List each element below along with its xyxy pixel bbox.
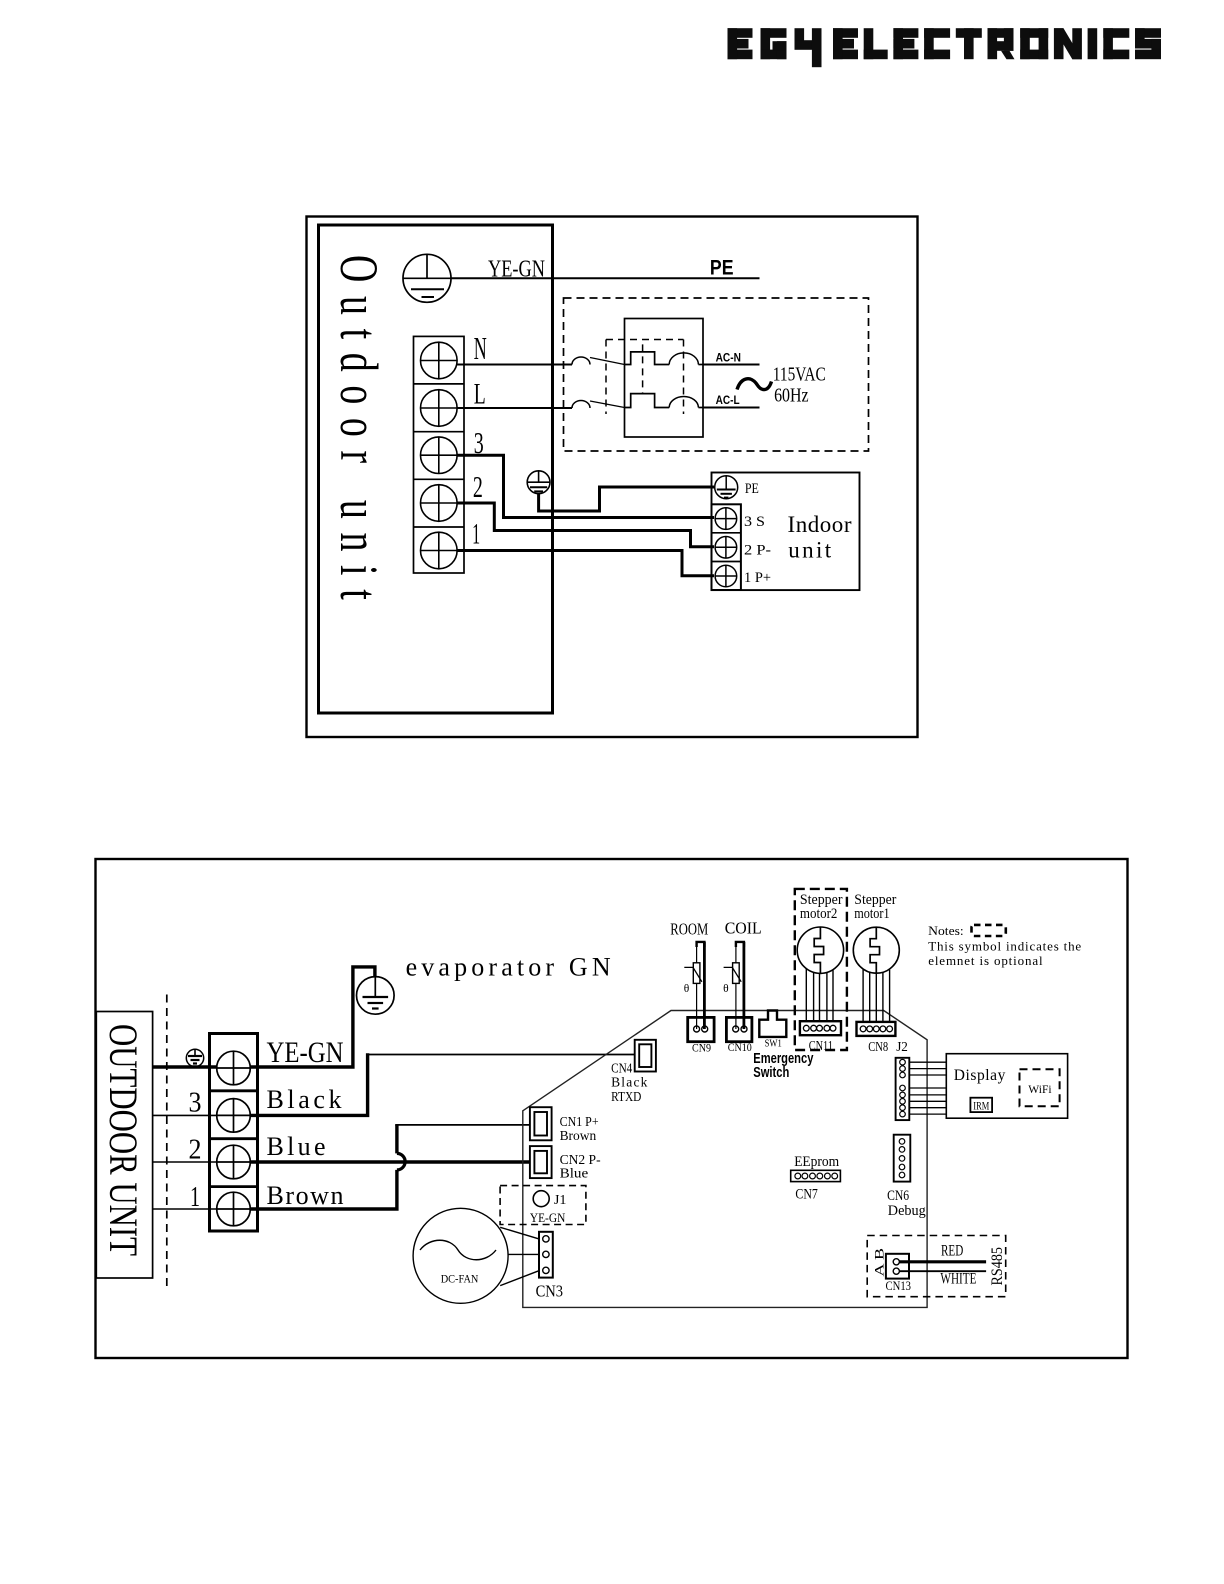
J1 pad [533,1191,549,1207]
indoor PE ground symbol [715,476,738,499]
svg-text:PE: PE [745,481,759,497]
svg-text:elemnet is optional: elemnet is optional [928,953,1043,968]
fan wires [500,1227,539,1285]
label CN13 [886,1279,912,1293]
terminal 3 [421,437,458,474]
label SW1 [765,1038,782,1050]
Display box [946,1054,1067,1119]
label YE-GN (wire) [267,1036,344,1069]
label Blue [267,1132,326,1161]
svg-text:CN9: CN9 [692,1042,711,1054]
svg-text:IRM: IRM [973,1099,989,1113]
stub wire 3 [153,1114,217,1116]
RS485 dashed box [867,1236,1006,1297]
label CN8 [868,1039,888,1054]
svg-text:Black: Black [611,1075,648,1090]
indoor terminal 2 P- [715,537,737,559]
label 115VAC [773,363,826,385]
svg-text:CN3: CN3 [536,1282,564,1301]
breaker box [625,319,704,438]
WiFi dashed box [1020,1069,1060,1106]
wire N to breaker [457,357,624,364]
svg-text:Notes:: Notes: [928,923,964,938]
label J2 [896,1039,908,1054]
breaker inner dashed box [606,340,684,415]
svg-text:COIL: COIL [725,919,762,938]
label CN2 P- [560,1153,601,1168]
svg-text:Switch: Switch [753,1065,789,1081]
svg-text:Debug: Debug [888,1203,926,1219]
svg-text:60Hz: 60Hz [774,385,809,407]
ground symbol YE-GN (outdoor) [403,254,451,302]
J1 dashed box [500,1186,586,1225]
OUTDOOR UNIT box [96,1012,152,1279]
connector CN13 [886,1254,909,1279]
svg-text:J2: J2 [896,1039,908,1054]
svg-text:A B: A B [873,1248,887,1277]
notes text [928,939,1081,969]
label 3 [474,425,484,460]
label 60Hz [774,385,809,407]
svg-text:3: 3 [189,1086,202,1118]
terminal 2 [421,485,458,522]
label 3 S [744,514,765,530]
svg-text:Blue: Blue [560,1167,589,1182]
connector CN6 [894,1135,911,1182]
connector CN8 [857,1022,896,1036]
label Black [267,1085,342,1114]
label AC-N [716,353,741,365]
label ROOM [670,919,708,938]
label Emergency Switch [753,1051,813,1081]
svg-text:CN11: CN11 [809,1038,833,1053]
wire Black to CN4 [250,1053,634,1115]
label 2 [473,469,483,504]
label YE-GN [488,257,545,283]
label evaporator GN [406,953,611,982]
label 2 (bottom) [189,1133,202,1165]
label 2 P- [744,543,771,559]
svg-text:YE-GN: YE-GN [530,1211,565,1225]
DC-FAN motor [413,1208,508,1303]
label CN6 Debug [887,1188,926,1219]
connector J2 [896,1058,910,1120]
svg-text:RED: RED [941,1243,963,1260]
evaporator ground symbol [357,977,395,1015]
label EEprom [794,1154,839,1170]
svg-text:DC-FAN: DC-FAN [441,1273,479,1285]
svg-text:motor1: motor1 [854,906,889,922]
svg-text:CN10: CN10 [728,1042,752,1054]
svg-text:1 P+: 1 P+ [744,570,771,586]
svg-text:Indoor: Indoor [788,512,852,537]
svg-text:Display: Display [954,1067,1006,1084]
terminal N [421,342,458,379]
small ground marker [186,1049,203,1066]
connector CN1 [530,1107,552,1140]
label A B [873,1248,887,1277]
label CN10 [728,1042,752,1054]
label CN3 [536,1282,564,1301]
connector CN4 [635,1040,656,1072]
stepper motor2 [797,927,843,973]
label J1 [554,1193,567,1208]
label WiFi [1028,1082,1052,1096]
wire 2 to indoor P- [457,503,714,547]
svg-text:EEprom: EEprom [794,1154,839,1170]
svg-text:CN4: CN4 [611,1060,632,1075]
label 1 (bottom) [190,1181,200,1213]
svg-text:θ: θ [723,983,729,995]
indoor terminal 1 P+ [715,565,737,587]
label CN1 P+ [560,1115,599,1130]
label Indoor unit [788,512,852,563]
COIL sensor thermistor [723,942,744,1029]
label PE [710,256,734,279]
svg-text:RS485: RS485 [989,1247,1006,1286]
wire 1 to indoor P+ [457,551,714,576]
svg-text:unit: unit [788,538,832,563]
dashed boundary line [166,995,168,1292]
stub wire 1 [153,1208,217,1210]
label PE (indoor) [745,481,759,497]
motor1 wires [863,970,890,1022]
wire Blue to CN2 [250,1160,530,1163]
svg-text:YE-GN: YE-GN [488,257,545,283]
label Display [954,1067,1006,1084]
label L [474,377,486,410]
outdoor unit box [319,225,553,713]
terminal 1 [421,532,458,569]
label CN9 [692,1042,711,1054]
svg-text:OUTDOOR UNIT: OUTDOOR UNIT [101,1024,146,1256]
label N [474,330,487,366]
wire YE-GN / PE [451,277,760,279]
svg-text:θ: θ [684,983,690,995]
label Stepper motor1 [854,892,896,922]
svg-text:3 S: 3 S [744,514,765,530]
svg-text:AC-N: AC-N [716,353,741,365]
terminal 2 (bottom) [217,1145,251,1179]
connector CN10 [726,1017,752,1041]
label 1 P+ [744,570,771,586]
ground symbol (indoor PE wire) [527,471,550,494]
svg-text:CN6: CN6 [887,1188,909,1204]
label Brown [267,1181,344,1210]
indoor terminal sub-block [712,504,741,590]
indoor unit box [712,473,860,591]
IRM module [970,1098,992,1113]
svg-text:CN7: CN7 [795,1186,818,1202]
svg-text:YE-GN: YE-GN [267,1036,344,1069]
svg-text:2: 2 [189,1133,202,1165]
top diagram outer border [307,217,918,738]
connector CN7 [791,1170,841,1181]
terminal 1 (bottom) [217,1192,251,1226]
motor2 wires [806,969,833,1021]
svg-text:1: 1 [472,518,480,551]
terminal L [421,390,458,427]
label DC-FAN [441,1273,479,1285]
stepper motor1 [853,927,899,973]
wire AC-N [703,364,760,366]
OUTDOOR UNIT label [101,1024,146,1256]
bottom diagram border [96,859,1128,1358]
bottom terminal block [210,1034,258,1232]
svg-text:115VAC: 115VAC [773,363,826,385]
stub wire 2 [153,1161,217,1163]
connector CN3 [539,1232,553,1278]
svg-text:WHITE: WHITE [940,1270,976,1287]
breaker element L [625,394,704,408]
ROOM sensor thermistor [684,942,705,1029]
svg-text:N: N [474,330,487,366]
wire ground to indoor PE [539,487,714,511]
svg-text:RTXD: RTXD [611,1089,641,1104]
label CN4 Black RTXD [611,1060,648,1104]
AC tilde symbol [737,379,772,390]
wire Brown to CN1 [250,1125,530,1209]
label 1 [472,518,480,551]
wire YE-GN to evaporator ground [250,967,375,1067]
optional symbol [972,925,1006,936]
wire AC-L [703,407,760,409]
connector CN2 [530,1146,552,1178]
label 3 (bottom) [189,1086,202,1118]
terminal YE-GN [217,1051,251,1085]
svg-text:motor2: motor2 [800,906,838,922]
svg-text:Outdoor unit: Outdoor unit [328,255,388,600]
outdoor terminal block [414,336,465,573]
Notes [928,923,964,938]
wire L to breaker [457,401,624,409]
label COIL [725,919,762,938]
svg-text:J1: J1 [554,1193,567,1208]
svg-text:2: 2 [473,469,483,504]
indoor terminal 3 S [715,508,737,530]
wire 3 to indoor S [457,455,714,517]
svg-text:CN8: CN8 [868,1039,888,1054]
svg-text:L: L [474,377,486,410]
EG4 ELECTRONICS logo [728,28,1162,67]
connector CN9 [688,1017,714,1041]
label Blue (CN2) [560,1167,589,1182]
label RED [941,1243,963,1260]
label CN7 [795,1186,818,1202]
label AC-L [716,395,740,407]
stub wire YE-GN [153,1065,217,1068]
label RS485 [989,1247,1006,1286]
PCB outline [523,1011,927,1308]
wire WHITE [899,1270,986,1272]
Stepper motor2 dashed box [795,889,847,1050]
svg-text:WiFi: WiFi [1028,1082,1052,1096]
svg-text:ROOM: ROOM [670,919,708,938]
svg-text:Black: Black [267,1085,342,1114]
svg-text:2 P-: 2 P- [744,543,771,559]
label Stepper motor2 [800,892,843,922]
svg-text:This symbol indicates the: This symbol indicates the [928,939,1081,954]
svg-text:Brown: Brown [267,1181,344,1210]
svg-text:SW1: SW1 [765,1038,782,1050]
svg-text:Brown: Brown [560,1129,597,1144]
svg-text:PE: PE [710,256,734,279]
label CN11 [809,1038,833,1053]
wire RED [899,1260,986,1263]
label Brown (CN1) [560,1129,597,1144]
terminal 3 (bottom) [217,1099,251,1133]
label YE-GN (J1) [530,1211,565,1225]
connector CN11 [800,1021,841,1035]
svg-text:AC-L: AC-L [716,395,740,407]
breaker element N [625,352,704,365]
Outdoor unit label [328,255,388,600]
power supply dashed box [564,298,869,451]
svg-text:CN13: CN13 [886,1279,912,1293]
switch SW1 [759,1011,786,1037]
J2 to display wires [909,1062,946,1114]
label WHITE [940,1270,976,1287]
